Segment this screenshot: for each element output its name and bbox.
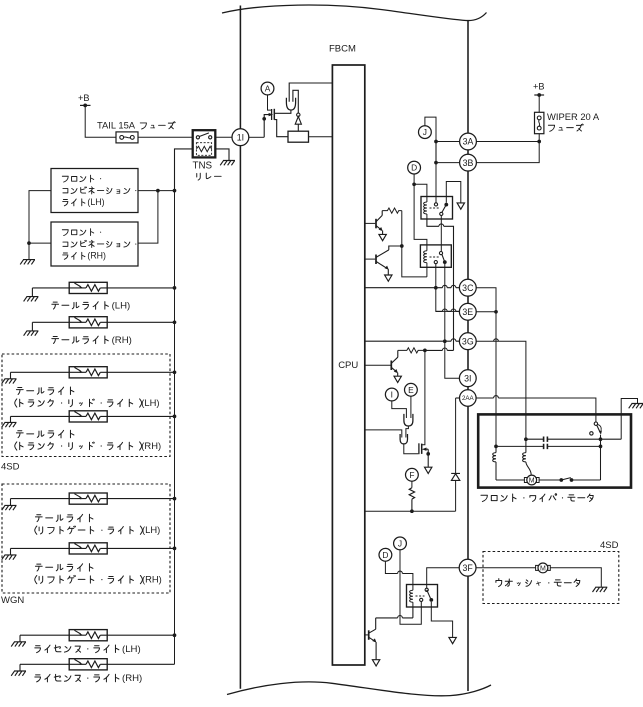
junction on lamp bus xyxy=(173,415,177,419)
junction R3 node xyxy=(423,349,427,353)
bulb license light RH xyxy=(69,659,107,670)
connector 3C xyxy=(459,279,476,296)
bulb license light LH xyxy=(69,630,107,641)
inductor L1 xyxy=(493,453,496,462)
svg-text:A: A xyxy=(265,84,271,94)
wire license light LH xyxy=(20,634,175,636)
ground arrow (Q1 emitter) xyxy=(379,234,386,240)
relay RY3 coil xyxy=(412,585,414,591)
transistor Q1 (NPN) xyxy=(365,222,376,224)
connector J (lower) xyxy=(394,537,407,550)
inductor L2 xyxy=(523,453,526,462)
connector 2AA xyxy=(460,390,477,407)
junction on lamp bus xyxy=(173,370,177,374)
label TNS xyxy=(193,161,213,172)
harness boundary tear line (top) xyxy=(222,5,487,21)
front wiper motor box xyxy=(478,414,631,487)
svg-text:(LH): (LH) xyxy=(122,644,141,655)
ground (tail light trunk LH) xyxy=(2,379,17,384)
ground (TNS relay) xyxy=(220,161,235,166)
junction on lamp bus xyxy=(173,189,177,193)
svg-text:3I: 3I xyxy=(464,373,471,383)
svg-text:I: I xyxy=(391,390,393,400)
svg-text:3C: 3C xyxy=(462,283,474,293)
wire Q4 collector xyxy=(369,618,376,633)
wire hops on 3C xyxy=(442,285,456,287)
wiper motor armature branch 2 xyxy=(524,437,528,441)
svg-text:(RH): (RH) xyxy=(122,673,142,684)
ground (license light LH) xyxy=(11,642,26,647)
relay RY3 blade xyxy=(427,590,431,599)
svg-text:(RH): (RH) xyxy=(112,335,132,346)
junction on 3B wire xyxy=(434,161,438,165)
wire hop over 3G wire xyxy=(494,339,499,341)
relay RY1 contacts xyxy=(434,203,437,206)
zener clamp D2 xyxy=(297,113,300,116)
bulb tail light LH xyxy=(69,282,107,293)
transistor Q6 (FET washer/wiper driver) xyxy=(418,443,420,454)
svg-text:F: F xyxy=(409,470,414,480)
svg-text:(LH): (LH) xyxy=(142,524,160,535)
bulb tail light trunk RH xyxy=(69,411,107,422)
svg-text:(RH): (RH) xyxy=(142,573,162,584)
wire tail light trunk LH xyxy=(11,371,175,373)
wire to connector 3E xyxy=(436,310,460,312)
wire motor bottom xyxy=(496,479,561,481)
transistor Q5 (P-ch FET high-side) xyxy=(271,109,273,120)
junction on 3G wire xyxy=(443,339,447,343)
svg-text:3E: 3E xyxy=(462,307,473,317)
wire charge pump to FBCM xyxy=(289,83,332,102)
wire hop over J wire xyxy=(398,571,403,573)
ground (license light RH) xyxy=(11,671,26,676)
wire node to RY1 coil line xyxy=(425,349,454,351)
relay RY2 (box) xyxy=(420,245,451,267)
svg-text:D: D xyxy=(382,550,388,560)
relay RY2 blade xyxy=(442,255,445,262)
label license light RH xyxy=(35,673,142,684)
wire FBCM to connector 3C xyxy=(365,287,460,289)
wire Q3 collector xyxy=(391,350,398,363)
svg-text:TAIL 15A: TAIL 15A xyxy=(97,119,136,130)
junction xyxy=(27,241,31,245)
relay RY1 (box) xyxy=(421,197,453,220)
svg-text:1I: 1I xyxy=(237,132,244,142)
svg-text:2AA: 2AA xyxy=(462,395,475,402)
wire RY1 coil to Q3 collector node xyxy=(427,219,454,350)
label tail trunk LH xyxy=(16,387,73,395)
svg-text:+B: +B xyxy=(78,93,90,103)
junction on lamp bus xyxy=(173,320,177,324)
bulb tail light liftgate LH xyxy=(69,493,107,504)
harness boundary line (left) xyxy=(239,6,241,689)
bulb tail light liftgate RH xyxy=(69,543,107,554)
harness boundary line (right) xyxy=(467,21,469,691)
svg-text:(LH): (LH) xyxy=(112,300,131,311)
connector 3A xyxy=(460,133,477,150)
connector A xyxy=(261,82,274,95)
ground arrow (Q2 emitter) xyxy=(385,275,392,281)
front combination light LH box xyxy=(51,169,138,213)
logic gate U4 xyxy=(400,434,407,444)
wire hop xyxy=(494,396,499,398)
ground (tail light LH) xyxy=(24,297,39,302)
svg-text:FBCM: FBCM xyxy=(329,44,356,55)
wire tail light RH xyxy=(32,321,174,323)
ground arrow (RY1 common) xyxy=(457,203,464,209)
label front wiper motor xyxy=(481,494,593,502)
harness boundary tear line (bottom) xyxy=(227,682,491,696)
wire tail light liftgate LH xyxy=(11,498,175,500)
wire Q4 collector to RY3 coil xyxy=(376,607,413,618)
park switch blade xyxy=(597,425,601,432)
wire down to 3B node xyxy=(435,142,437,163)
transistor Q2 (NPN) xyxy=(365,258,376,260)
connector D (upper) xyxy=(408,161,421,174)
junction D branch xyxy=(412,182,416,186)
svg-text:CPU: CPU xyxy=(338,360,358,371)
relay RY1 blade xyxy=(442,205,446,213)
svg-text:TNS: TNS xyxy=(193,161,213,172)
front combination light RH box xyxy=(51,222,138,266)
label washer motor xyxy=(496,579,580,587)
wire hop over J wire xyxy=(398,616,403,618)
connector 1I xyxy=(232,129,249,146)
connector E xyxy=(405,383,418,396)
park switch S1 xyxy=(594,422,597,425)
ground (wiper motor) xyxy=(629,404,643,409)
connector 3B xyxy=(460,154,477,171)
svg-text:WIPER 20 A: WIPER 20 A xyxy=(547,111,600,122)
junction 3E joins xyxy=(494,310,498,314)
svg-text:M: M xyxy=(529,478,535,485)
ground arrow (Q4 emitter) xyxy=(372,660,379,666)
wire Q1 emitter xyxy=(376,226,382,231)
wire tail light trunk RH xyxy=(11,415,175,417)
wire tail light LH xyxy=(32,287,174,289)
svg-text:E: E xyxy=(408,385,414,395)
motor M2 (washer) xyxy=(536,563,551,573)
connector F xyxy=(406,468,419,481)
connector J (upper) xyxy=(419,126,432,139)
wire Q1 collector xyxy=(376,211,382,222)
transistor Q3 (NPN, CPU) xyxy=(365,364,391,366)
connector 3I xyxy=(459,370,476,387)
ground (tail light liftgate RH) xyxy=(2,555,17,560)
wire TNS coil to ground xyxy=(215,149,229,160)
bulb tail light RH xyxy=(69,317,107,328)
label tail light RH xyxy=(52,335,132,346)
junction R4 to sense line xyxy=(410,509,414,513)
relay TNS (box) xyxy=(193,130,216,157)
relay RY3 washer (box) xyxy=(407,585,438,608)
junction Q2 collector xyxy=(400,244,404,248)
wire Q5 drain to resistor R1 xyxy=(274,120,288,137)
svg-text:M: M xyxy=(540,566,546,573)
logic gate U3 xyxy=(404,414,413,426)
wire Q4 emitter xyxy=(369,637,376,642)
+B battery supply (left) xyxy=(78,93,91,107)
svg-text:3G: 3G xyxy=(462,336,474,346)
label tail trunk RH xyxy=(16,430,73,438)
junction on lamp bus xyxy=(173,497,177,501)
charge pump cell U2 xyxy=(286,98,295,110)
connector D (lower) xyxy=(379,548,392,561)
label tail light LH xyxy=(52,300,130,311)
connector 3E xyxy=(459,303,476,320)
svg-text:D: D xyxy=(411,163,417,173)
option box 4SD (trunk lid lights) xyxy=(2,354,170,457)
wire hop xyxy=(442,348,447,350)
svg-text:4SD: 4SD xyxy=(600,540,619,551)
wire TNS coil to lamp bus xyxy=(175,149,193,191)
ground (combination lights) xyxy=(20,260,35,265)
wire clamp to resistor R1 xyxy=(297,124,299,131)
diode D1 xyxy=(451,473,460,480)
bulb tail light trunk LH xyxy=(69,367,107,378)
label tail liftgate RH xyxy=(35,564,92,572)
wire cap node to ground leg xyxy=(601,438,622,440)
wire tail light liftgate RH xyxy=(11,547,175,549)
ground (tail light trunk RH) xyxy=(2,422,17,427)
fuse WIPER 20 A xyxy=(535,112,544,133)
wire Q3 emitter xyxy=(391,367,397,372)
option box WGN (liftgate lights) xyxy=(2,484,170,593)
relay RY2 coil xyxy=(426,245,428,251)
svg-text:3F: 3F xyxy=(462,563,473,573)
svg-text:(LH): (LH) xyxy=(141,397,159,408)
ground arrow (Q3 emitter) xyxy=(394,376,401,382)
wire hops on 3E xyxy=(442,309,456,311)
svg-text:(RH): (RH) xyxy=(141,440,161,451)
wire license light RH xyxy=(20,663,175,665)
TNS relay coil xyxy=(196,143,211,156)
transistor Q4 (NPN, washer driver) xyxy=(365,634,368,636)
svg-text:WGN: WGN xyxy=(1,595,24,606)
svg-text:+B: +B xyxy=(533,82,545,92)
motor M1 (front wiper) xyxy=(524,475,539,485)
connector 3G xyxy=(459,333,476,350)
wiper motor armature branch 1 xyxy=(494,445,498,449)
svg-text:(LH): (LH) xyxy=(87,197,104,207)
svg-text:3A: 3A xyxy=(463,137,474,147)
ground (tail light RH) xyxy=(24,331,39,336)
junction on 3A wire xyxy=(434,140,438,144)
wire Q5 drain to charge pump xyxy=(274,110,291,113)
junction on 3C wire xyxy=(434,286,438,290)
svg-text:J: J xyxy=(423,127,427,137)
junction fuse to 3A/3B xyxy=(537,140,541,144)
ground arrow (Q6) xyxy=(425,467,432,473)
TNS relay switch contacts xyxy=(196,136,199,139)
park switch S2 (run) xyxy=(559,478,563,482)
junction on lamp bus xyxy=(173,286,177,290)
relay RY3 contacts xyxy=(425,588,428,591)
junction xyxy=(156,189,160,193)
relay RY2 contacts xyxy=(439,252,442,255)
ground (washer motor) xyxy=(593,587,608,592)
connector I xyxy=(385,388,398,401)
resistor R4 (zigzag) xyxy=(409,488,414,499)
wire FBCM to connector 3G xyxy=(365,340,460,342)
junction on lamp bus xyxy=(173,633,177,637)
connector 3F xyxy=(459,559,476,576)
FBCM body control module box xyxy=(332,65,364,665)
wire Q2 emitter xyxy=(376,261,388,268)
svg-text:4SD: 4SD xyxy=(1,462,20,473)
wire charge pump to clamp xyxy=(293,90,298,113)
+B battery supply (right) xyxy=(533,82,545,97)
label license light LH xyxy=(35,644,141,655)
resistor R1 (block) xyxy=(288,131,309,142)
relay RY1 coil xyxy=(426,197,428,203)
wire hop on 3G xyxy=(451,339,456,341)
wire Q2 collector xyxy=(376,246,402,257)
ground arrow (RY3) xyxy=(449,637,456,643)
wire Q6 source to ground arrow xyxy=(427,454,429,467)
svg-text:J: J xyxy=(398,538,402,548)
junction on lamp bus xyxy=(173,547,177,551)
capacitor C2 xyxy=(496,445,601,447)
washer motor option box 4SD xyxy=(483,552,619,604)
ground (tail light liftgate LH) xyxy=(2,505,17,510)
capacitor C1 xyxy=(526,438,601,440)
label tail liftgate LH xyxy=(35,514,92,522)
TNS relay switch blade xyxy=(199,133,209,137)
svg-text:3B: 3B xyxy=(463,158,474,168)
wire hop xyxy=(439,224,444,226)
wire park switch to motor circuit xyxy=(600,435,602,480)
fuse TAIL 15A xyxy=(116,132,138,143)
svg-text:(RH): (RH) xyxy=(87,251,106,261)
wire Q5 source xyxy=(264,115,269,138)
